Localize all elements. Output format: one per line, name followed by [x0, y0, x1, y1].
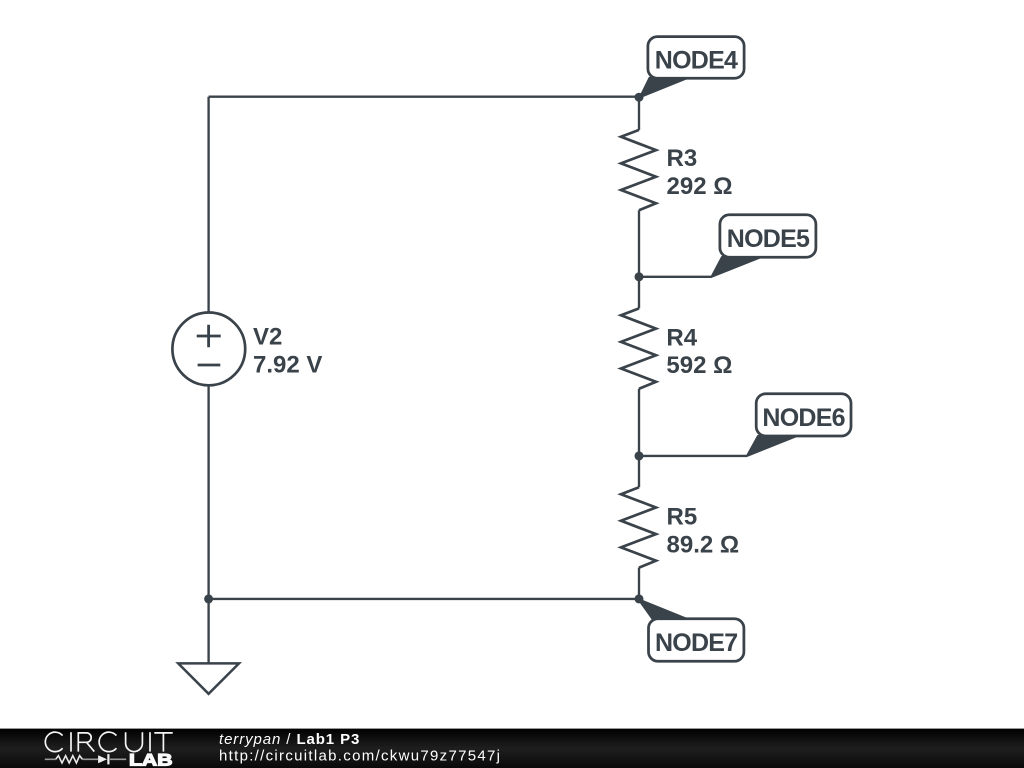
svg-text:NODE7: NODE7: [655, 629, 737, 657]
junction dot bottom left: [204, 594, 213, 603]
node D junction dot node7: [635, 594, 644, 603]
resistor R5: [621, 487, 656, 567]
wire left lower vertical: [207, 385, 209, 599]
wire stub node5: [639, 276, 712, 278]
flag NODE7: [639, 599, 744, 661]
wire left upper vertical: [207, 97, 209, 313]
node B junction dot node5: [635, 272, 644, 281]
footer bar: [0, 729, 1024, 768]
svg-text:V2: V2: [253, 324, 282, 351]
label R3 value: [667, 145, 733, 200]
wire R4 to R5 through node6: [638, 389, 640, 488]
svg-text:292 Ω: 292 Ω: [667, 173, 733, 200]
label V2 value: [253, 324, 322, 379]
wire bottom horizontal: [209, 598, 639, 600]
node A junction dot node4: [635, 93, 644, 102]
resistor R3: [621, 130, 656, 210]
resistor R4: [621, 308, 656, 388]
svg-text:NODE5: NODE5: [727, 225, 810, 253]
wire right segment node4 to R3: [638, 97, 640, 130]
wire top horizontal: [209, 96, 639, 98]
svg-text:R4: R4: [666, 325, 697, 352]
svg-text:592 Ω: 592 Ω: [666, 352, 732, 379]
wire R3 to R4 through node5: [638, 210, 640, 308]
flag NODE6: [747, 394, 851, 456]
label R4 value: [666, 325, 732, 379]
wire stub node6: [639, 455, 747, 457]
wire ground lead: [207, 599, 209, 664]
wire R5 to node7: [638, 568, 640, 599]
flag NODE5: [712, 215, 816, 277]
svg-text:http://circuitlab.com/ckwu79z7: http://circuitlab.com/ckwu79z77547j: [219, 748, 501, 765]
node C junction dot node6: [635, 451, 644, 460]
svg-text:R5: R5: [667, 504, 698, 531]
label R5 value: [667, 504, 740, 559]
svg-text:89.2 Ω: 89.2 Ω: [667, 531, 740, 558]
svg-text:7.92 V: 7.92 V: [253, 352, 322, 379]
svg-text:NODE4: NODE4: [655, 47, 738, 75]
logo CIRCUIT wordmark: [45, 732, 172, 751]
logo resistor-diode strip: [45, 754, 126, 764]
svg-text:NODE6: NODE6: [762, 404, 844, 432]
voltage source V2: [172, 313, 245, 386]
flag NODE4: [640, 37, 744, 98]
ground: [178, 663, 239, 693]
svg-text:terrypan / Lab1 P3: terrypan / Lab1 P3: [219, 731, 360, 748]
svg-text:LAB: LAB: [129, 751, 173, 768]
svg-text:R3: R3: [667, 145, 698, 172]
